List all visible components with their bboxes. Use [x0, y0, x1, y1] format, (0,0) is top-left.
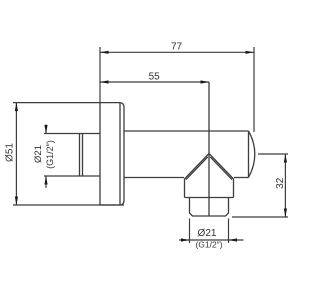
body tube bottom edge left segment [124, 177, 184, 179]
svg-text:77: 77 [171, 41, 183, 52]
svg-text:Ø21: Ø21 [198, 228, 217, 239]
outlet centerline [208, 82, 210, 216]
wall inlet stub top edge [44, 133, 100, 135]
svg-text:Ø51: Ø51 [5, 143, 16, 162]
flange outline [100, 103, 124, 205]
dimension line 55 [100, 81, 209, 83]
extension line outlet Ø21 left [189, 219, 191, 244]
arrow 55 right [201, 80, 210, 83]
end cap nose arc [249, 131, 255, 178]
dimension line Ø51 [15, 103, 17, 205]
svg-text:(G1/2″): (G1/2″) [195, 240, 222, 250]
body tube bottom edge right segment [234, 177, 249, 179]
cone right slant [209, 154, 234, 180]
arrow 32 top [284, 154, 287, 163]
cone bottom shoulder [185, 197, 234, 199]
cone right inner slant [210, 157, 232, 180]
arrow 32 bottom [284, 209, 287, 218]
arrow Ø51 bottom [15, 197, 18, 206]
flange inner edge line [119, 103, 121, 205]
extension line 32 top [258, 153, 288, 155]
cone left slant [185, 154, 210, 180]
end cap joint line [248, 131, 250, 178]
dimension line stub Ø21 [45, 124, 47, 133]
extension line elbow right end [253, 47, 255, 132]
svg-text:Ø21: Ø21 [33, 145, 44, 163]
dimension line outlet Ø21 [179, 239, 244, 241]
arrow stub Ø21 top [44, 125, 47, 134]
extension line outlet Ø21 right [228, 219, 230, 244]
stub thread end line [79, 134, 81, 177]
extension line Ø51 bottom [13, 204, 124, 206]
body tube top edge [124, 130, 249, 132]
svg-text:(G1/2″): (G1/2″) [45, 140, 55, 169]
svg-text:32: 32 [275, 177, 286, 189]
arrow stub Ø21 bottom [44, 176, 47, 185]
cone left inner slant [186, 157, 208, 180]
arrow outlet Ø21 left [181, 238, 190, 241]
arrow Ø51 top [15, 103, 18, 112]
extension line 32 bottom [232, 216, 288, 218]
arrow 55 left [100, 80, 109, 83]
cone left side [184, 179, 186, 198]
cone right side [233, 179, 235, 198]
arrow 77 left [100, 51, 109, 54]
arrow outlet Ø21 right [229, 238, 238, 241]
dimension line 77 [100, 51, 254, 53]
outlet nipple [190, 198, 229, 217]
dimension line 32 [284, 154, 286, 217]
arrow 77 right [246, 51, 255, 54]
svg-text:55: 55 [149, 72, 161, 83]
stub collar line [82, 134, 84, 177]
extension line flange face [99, 47, 101, 103]
extension line Ø51 top [13, 102, 100, 104]
wall inlet stub bottom edge [44, 175, 100, 177]
